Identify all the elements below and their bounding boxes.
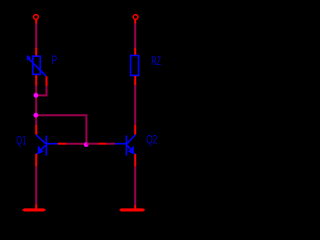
wire pin — [35, 75, 37, 85]
wire — [134, 205, 136, 209]
wire — [106, 143, 115, 145]
wire — [36, 115, 86, 144]
transistor Q1 — [36, 135, 58, 156]
wire — [134, 20, 136, 24]
node B junction — [33, 113, 38, 118]
wire pin — [35, 48, 37, 56]
wire — [134, 24, 136, 49]
wire pin — [134, 76, 136, 85]
svg-text:P: P — [52, 55, 58, 67]
wire — [35, 167, 37, 205]
wire — [35, 24, 37, 49]
resistor RZ — [131, 56, 139, 76]
wire collector pin Q1 — [35, 125, 37, 135]
terminal T1 — [34, 15, 39, 20]
node C junction — [84, 142, 89, 147]
svg-text:RZ: RZ — [151, 56, 161, 68]
wire — [35, 20, 37, 24]
wire collector pin Q2 — [134, 125, 136, 135]
wire emitter pin Q1 — [35, 154, 37, 167]
wire emitter pin Q2 — [134, 154, 136, 167]
potentiometer P — [27, 55, 46, 76]
wire — [98, 143, 106, 145]
node A junction — [34, 93, 39, 98]
wire — [35, 86, 37, 126]
wire — [36, 86, 46, 95]
wire — [35, 204, 37, 209]
wire — [87, 143, 99, 145]
wire — [134, 167, 136, 205]
wire pin — [134, 48, 136, 56]
svg-text:Q2: Q2 — [146, 135, 157, 147]
wire base pin Q1 — [58, 143, 67, 145]
wire — [134, 85, 136, 124]
transistor Q2 — [115, 135, 135, 156]
wire wiper pin — [46, 76, 48, 86]
svg-text:Q1: Q1 — [16, 135, 26, 147]
terminal T2 — [133, 15, 138, 20]
wire — [66, 143, 86, 145]
ground left — [22, 208, 46, 211]
ground right — [119, 208, 145, 211]
